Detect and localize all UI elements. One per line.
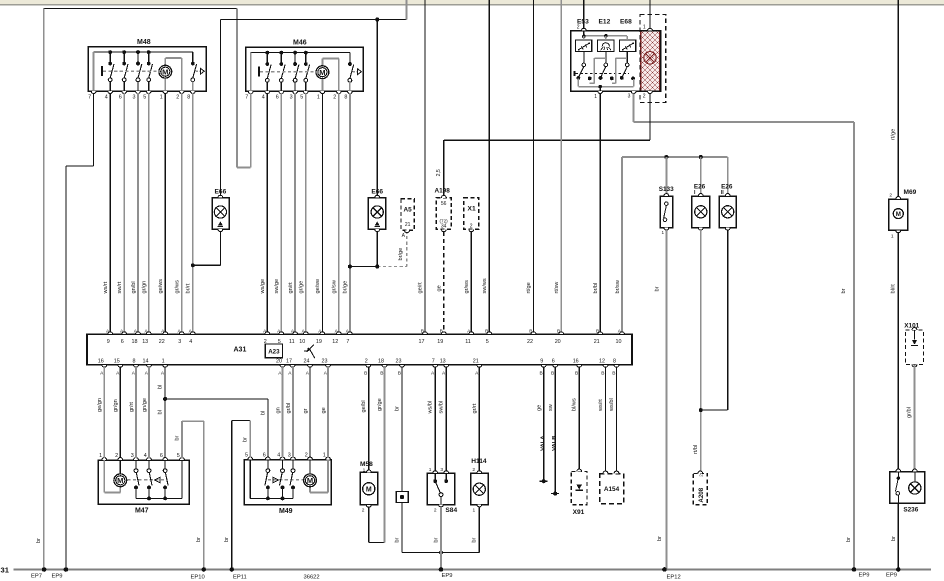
svg-text:sw/bl: sw/bl	[439, 401, 445, 414]
svg-text:ws/bl: ws/bl	[428, 401, 434, 415]
svg-text:2: 2	[176, 94, 179, 100]
svg-text:bl/rt: bl/rt	[891, 284, 897, 294]
svg-text:sw/ws: sw/ws	[482, 278, 488, 293]
svg-text:1: 1	[323, 453, 326, 459]
svg-text:2: 2	[577, 25, 580, 31]
svg-text:A154: A154	[604, 486, 620, 493]
svg-text:EP7: EP7	[31, 573, 42, 579]
svg-text:M49: M49	[279, 508, 293, 515]
svg-text:br/ge: br/ge	[343, 281, 349, 294]
svg-text:12: 12	[332, 339, 338, 345]
svg-text:E68: E68	[620, 19, 632, 26]
svg-text:13: 13	[440, 359, 446, 365]
svg-text:36622: 36622	[304, 574, 320, 580]
svg-text:gr/sw: gr/sw	[332, 279, 338, 293]
svg-text:2: 2	[333, 94, 336, 100]
svg-text:br: br	[654, 286, 660, 291]
svg-text:gr/bl: gr/bl	[286, 403, 292, 414]
svg-text:5: 5	[300, 94, 303, 100]
svg-text:4: 4	[105, 94, 108, 100]
svg-text:1: 1	[473, 507, 476, 513]
svg-text:5: 5	[486, 339, 489, 345]
svg-text:34: 34	[441, 224, 447, 230]
svg-text:H114: H114	[471, 458, 487, 465]
svg-text:M: M	[896, 211, 901, 218]
svg-text:gr/ge: gr/ge	[377, 398, 383, 411]
svg-text:gn/ge: gn/ge	[142, 398, 148, 412]
svg-text:2: 2	[264, 339, 267, 345]
svg-text:ge: ge	[437, 285, 443, 291]
svg-text:ge/gn: ge/gn	[97, 398, 103, 412]
svg-text:A23: A23	[268, 349, 280, 356]
svg-text:bl: bl	[158, 410, 164, 414]
svg-text:M46: M46	[293, 40, 307, 47]
svg-text:B: B	[440, 328, 443, 334]
svg-text:9: 9	[540, 359, 543, 365]
svg-text:1: 1	[317, 94, 320, 100]
svg-text:5: 5	[245, 453, 248, 459]
svg-text:sw: sw	[548, 403, 554, 411]
svg-text:A31: A31	[234, 346, 247, 353]
svg-text:rt/bl: rt/bl	[693, 445, 699, 454]
svg-text:8: 8	[187, 94, 190, 100]
svg-text:16: 16	[98, 359, 104, 365]
svg-text:10: 10	[299, 339, 305, 345]
svg-text:rt/ge: rt/ge	[891, 129, 897, 140]
svg-text:3: 3	[290, 94, 293, 100]
svg-text:9: 9	[107, 339, 110, 345]
svg-text:S236: S236	[903, 506, 918, 513]
svg-text:br: br	[433, 537, 439, 542]
svg-text:6: 6	[121, 339, 124, 345]
svg-text:3: 3	[288, 453, 291, 459]
svg-text:br: br	[224, 537, 230, 542]
svg-text:M48: M48	[137, 39, 151, 46]
svg-text:6: 6	[119, 94, 122, 100]
svg-text:br: br	[891, 536, 897, 541]
svg-text:4: 4	[189, 339, 192, 345]
svg-text:21: 21	[473, 359, 479, 365]
svg-text:17: 17	[286, 359, 292, 365]
svg-text:19: 19	[316, 339, 322, 345]
svg-text:ge: ge	[321, 407, 327, 413]
svg-text:VAI-A: VAI-A	[540, 435, 546, 451]
svg-text:5: 5	[143, 94, 146, 100]
svg-text:br: br	[657, 536, 663, 541]
svg-text:4: 4	[144, 453, 147, 459]
svg-text:A198: A198	[435, 187, 451, 194]
svg-text:B: B	[601, 370, 604, 376]
svg-text:21: 21	[405, 222, 411, 228]
svg-text:ge/rt: ge/rt	[418, 282, 424, 294]
svg-text:20: 20	[555, 339, 561, 345]
svg-text:A208: A208	[698, 487, 705, 502]
svg-text:B: B	[529, 328, 532, 334]
svg-text:1: 1	[594, 94, 597, 100]
svg-text:br/ge: br/ge	[398, 248, 404, 261]
svg-text:1: 1	[429, 467, 432, 473]
svg-text:br: br	[394, 537, 400, 542]
svg-text:E66: E66	[215, 188, 227, 195]
svg-text:gr: gr	[303, 408, 309, 413]
svg-text:sw/rt: sw/rt	[117, 281, 123, 293]
svg-text:M: M	[319, 68, 325, 77]
svg-text:br: br	[472, 537, 478, 542]
svg-text:2: 2	[470, 223, 473, 229]
svg-text:2: 2	[699, 474, 704, 477]
svg-text:br: br	[36, 538, 42, 543]
svg-text:gr/rt: gr/rt	[472, 403, 478, 413]
svg-text:bl: bl	[158, 385, 164, 389]
svg-text:E66: E66	[371, 188, 383, 195]
svg-text:B: B	[539, 370, 542, 376]
svg-text:6: 6	[160, 453, 163, 459]
svg-text:7: 7	[245, 94, 248, 100]
svg-text:M69: M69	[904, 189, 917, 196]
svg-text:2: 2	[305, 453, 308, 459]
svg-text:ge/bl: ge/bl	[361, 400, 367, 412]
svg-text:1: 1	[99, 453, 102, 459]
svg-text:M47: M47	[135, 508, 149, 515]
svg-text:br/bl: br/bl	[593, 283, 599, 294]
svg-text:M: M	[366, 486, 372, 493]
svg-text:M: M	[162, 67, 168, 76]
svg-text:VAI-B: VAI-B	[552, 436, 558, 451]
svg-text:1: 1	[891, 233, 894, 239]
svg-text:31: 31	[1, 566, 10, 575]
svg-text:B: B	[575, 370, 578, 376]
svg-text:gr/rt: gr/rt	[129, 402, 135, 412]
svg-text:6: 6	[263, 453, 266, 459]
svg-text:6: 6	[552, 359, 555, 365]
svg-text:br: br	[841, 288, 847, 293]
svg-text:S84: S84	[445, 507, 457, 514]
svg-text:br: br	[394, 406, 400, 411]
svg-text:2: 2	[889, 193, 892, 199]
svg-text:B: B	[380, 370, 383, 376]
svg-text:6: 6	[276, 94, 279, 100]
svg-text:br: br	[196, 537, 202, 542]
svg-text:ws/rt: ws/rt	[598, 399, 604, 412]
svg-text:22: 22	[159, 339, 165, 345]
svg-text:gr/gn: gr/gn	[142, 281, 148, 294]
svg-text:7: 7	[432, 359, 435, 365]
svg-text:23: 23	[396, 359, 402, 365]
svg-text:gn: gn	[275, 407, 281, 413]
svg-text:M58: M58	[360, 461, 373, 468]
svg-text:5: 5	[278, 339, 281, 345]
svg-text:16: 16	[573, 359, 579, 365]
svg-text:2: 2	[434, 507, 437, 513]
svg-text:8: 8	[344, 94, 347, 100]
svg-text:bl/ws: bl/ws	[571, 398, 577, 411]
svg-text:4: 4	[262, 94, 265, 100]
svg-text:8: 8	[613, 359, 616, 365]
svg-text:bl: bl	[260, 411, 266, 415]
svg-text:ge/ws: ge/ws	[158, 279, 164, 294]
svg-text:EP11: EP11	[233, 574, 247, 580]
svg-text:7: 7	[346, 339, 349, 345]
svg-text:56: 56	[441, 201, 447, 207]
svg-text:B: B	[612, 370, 615, 376]
svg-text:EP9: EP9	[859, 573, 870, 579]
svg-text:M: M	[307, 476, 313, 485]
svg-text:3: 3	[628, 94, 631, 100]
svg-text:br: br	[846, 537, 852, 542]
svg-text:gn/rt: gn/rt	[288, 282, 294, 294]
svg-text:B: B	[364, 370, 367, 376]
svg-text:11: 11	[465, 339, 471, 345]
svg-text:8: 8	[133, 359, 136, 365]
svg-text:10: 10	[616, 339, 622, 345]
svg-text:br/sw: br/sw	[615, 279, 621, 293]
svg-text:17: 17	[419, 339, 425, 345]
svg-text:2: 2	[643, 94, 646, 100]
svg-text:ws/bl: ws/bl	[609, 398, 615, 412]
svg-text:14: 14	[143, 359, 149, 365]
svg-text:B: B	[398, 370, 401, 376]
svg-text:5: 5	[177, 453, 180, 459]
svg-text:13: 13	[142, 339, 148, 345]
svg-text:1: 1	[162, 359, 165, 365]
svg-text:X1: X1	[468, 206, 476, 213]
svg-text:3: 3	[440, 467, 443, 473]
svg-text:X91: X91	[573, 509, 585, 516]
svg-text:7: 7	[88, 94, 91, 100]
svg-text:2: 2	[472, 467, 475, 473]
svg-text:ge: ge	[536, 405, 542, 411]
svg-text:S133: S133	[659, 186, 674, 193]
svg-text:15: 15	[114, 359, 120, 365]
svg-text:gn/bl: gn/bl	[131, 281, 137, 293]
svg-text:rt/sw: rt/sw	[554, 281, 560, 294]
svg-text:1: 1	[643, 25, 646, 31]
svg-text:2: 2	[362, 508, 365, 514]
svg-text:22: 22	[527, 339, 533, 345]
svg-text:ws/rt: ws/rt	[103, 281, 109, 294]
svg-text:EP10: EP10	[191, 574, 205, 580]
svg-text:18: 18	[132, 339, 138, 345]
svg-text:4: 4	[277, 453, 280, 459]
svg-text:1: 1	[363, 467, 366, 473]
svg-text:br/rt: br/rt	[186, 283, 192, 293]
svg-text:B: B	[485, 328, 488, 334]
svg-text:3: 3	[178, 339, 181, 345]
svg-text:11: 11	[289, 339, 295, 345]
svg-text:19: 19	[437, 339, 443, 345]
svg-text:br: br	[174, 435, 180, 440]
svg-text:23: 23	[322, 359, 328, 365]
svg-text:B: B	[596, 328, 599, 334]
svg-text:EP9: EP9	[886, 573, 897, 579]
svg-text:2,5: 2,5	[436, 169, 442, 176]
svg-text:M: M	[117, 476, 123, 485]
svg-text:18: 18	[378, 359, 384, 365]
svg-text:21: 21	[594, 339, 600, 345]
svg-text:1: 1	[160, 94, 163, 100]
svg-text:12: 12	[599, 359, 605, 365]
svg-text:sw/ge: sw/ge	[274, 279, 280, 294]
svg-text:gr/ge: gr/ge	[299, 281, 305, 294]
svg-text:2: 2	[115, 453, 118, 459]
svg-text:3: 3	[133, 94, 136, 100]
svg-text:B: B	[557, 328, 560, 334]
svg-text:ge/sw: ge/sw	[315, 278, 321, 294]
svg-text:br: br	[243, 437, 249, 442]
svg-text:B: B	[551, 370, 554, 376]
svg-text:A5: A5	[404, 206, 413, 213]
svg-text:rt/ge: rt/ge	[526, 282, 532, 293]
svg-text:1: 1	[662, 230, 665, 235]
svg-text:ws/ge: ws/ge	[260, 279, 266, 295]
svg-text:2: 2	[365, 359, 368, 365]
svg-text:gr/ws: gr/ws	[175, 280, 181, 294]
svg-text:24: 24	[304, 359, 310, 365]
svg-text:EP12: EP12	[667, 574, 681, 580]
svg-text:B: B	[421, 328, 424, 334]
svg-text:gr/gn: gr/gn	[113, 399, 119, 412]
svg-text:20: 20	[276, 359, 282, 365]
svg-text:EP9: EP9	[442, 573, 453, 579]
svg-text:EP9: EP9	[52, 573, 63, 579]
svg-text:E12: E12	[599, 19, 611, 26]
svg-text:3: 3	[131, 453, 134, 459]
svg-text:gr/bl: gr/bl	[907, 407, 913, 418]
svg-text:gr/ws: gr/ws	[464, 280, 470, 294]
svg-text:E26: E26	[694, 183, 706, 190]
